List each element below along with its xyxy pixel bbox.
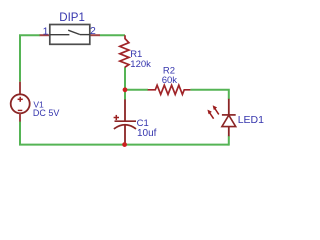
LED1 top lead <box>228 99 230 115</box>
LED1 cathode bar <box>222 114 236 116</box>
wire LED bottom to bottom rail <box>228 136 230 146</box>
svg-text:2: 2 <box>90 25 96 37</box>
wire V1 bottom to corner to bottom rail <box>20 121 229 144</box>
junction node A <box>123 87 128 92</box>
LED1 triangle <box>222 115 236 126</box>
DIP1 pin2 stub <box>90 34 100 36</box>
svg-text:60k: 60k <box>162 75 178 86</box>
switch DIP1 body <box>50 25 90 45</box>
wire junction to R2 <box>125 89 148 91</box>
C1 top plate <box>115 120 137 122</box>
svg-text:10uf: 10uf <box>137 128 157 139</box>
switch DIP1 arm <box>68 30 80 34</box>
capacitor C1 <box>124 99 126 121</box>
C1 bottom lead <box>124 124 126 144</box>
wire pin2 to R1 top corner <box>100 34 125 36</box>
voltage source V1 <box>19 82 21 94</box>
C1 bottom curved plate <box>114 125 136 129</box>
resistor R1 (vertical) <box>120 35 129 67</box>
junction node B (C1 to rail) <box>122 142 127 147</box>
wire R2 to LED corner <box>190 90 228 99</box>
svg-text:DIP1: DIP1 <box>59 12 85 24</box>
V1 bottom lead <box>19 113 21 121</box>
wire R1 bottom through junction to C1 top <box>124 67 126 99</box>
svg-text:120k: 120k <box>130 59 151 70</box>
switch DIP1 left contact <box>50 34 70 36</box>
resistor R2 (horizontal) <box>148 85 191 94</box>
svg-text:LED1: LED1 <box>238 114 264 126</box>
V1 minus sign <box>18 109 23 111</box>
svg-text:1: 1 <box>43 25 49 37</box>
LED1 bottom lead <box>228 127 230 137</box>
switch DIP1 right contact <box>80 34 90 36</box>
svg-text:DC 5V: DC 5V <box>33 108 60 118</box>
wire top-left horizontal <box>20 35 40 81</box>
V1 plus sign <box>18 98 23 100</box>
LED1 arrow 2 <box>213 106 219 115</box>
DIP1 pin1 stub <box>40 34 50 36</box>
C1 plus sign <box>114 117 119 119</box>
LED1 arrow 1 <box>208 110 214 119</box>
